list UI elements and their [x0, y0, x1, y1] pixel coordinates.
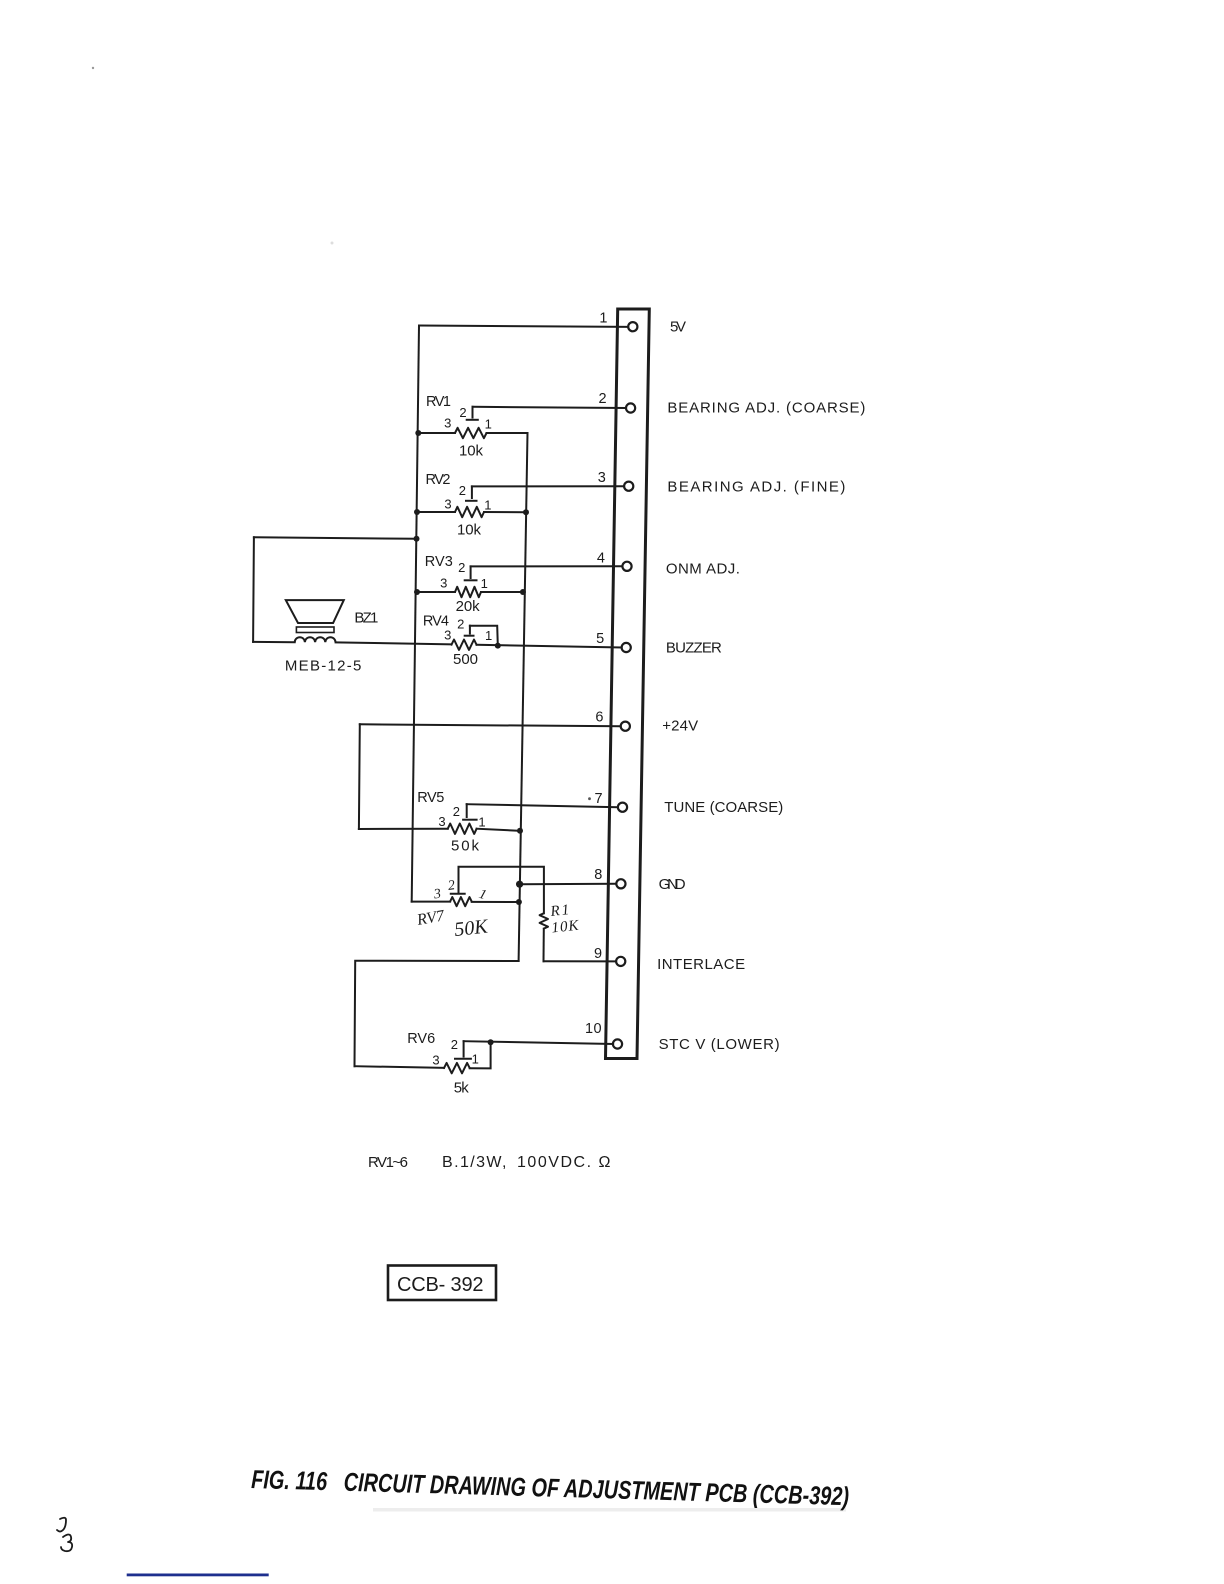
- RV7 pin 1 label: [477, 887, 488, 903]
- pin 7 number label: [595, 791, 604, 807]
- wire buzzer bottom left segment: [253, 641, 295, 643]
- RV2 wiper wire to pin 3: [472, 485, 624, 487]
- RV6 value 5k: [454, 1080, 471, 1097]
- svg-text:3: 3: [444, 628, 451, 643]
- RV3 pin 1 label: [481, 576, 488, 591]
- wire buzzer loop left vertical: [252, 537, 255, 642]
- svg-text:1: 1: [485, 417, 492, 432]
- svg-text:2: 2: [599, 391, 608, 407]
- potentiometer RV2 label: [426, 472, 452, 488]
- buzzer type MEB-12-5: [285, 658, 363, 675]
- svg-text:BZ1: BZ1: [354, 610, 380, 627]
- RV1 left lead: [418, 432, 455, 434]
- svg-text:5V: 5V: [670, 319, 688, 336]
- pin 2 terminal circle: [626, 403, 635, 412]
- RV7 pin 2 label: [447, 878, 456, 894]
- pin 6 terminal circle: [621, 722, 630, 731]
- svg-text:1: 1: [481, 576, 488, 591]
- svg-text:GND: GND: [659, 876, 688, 893]
- wire GND right bus vertical: [519, 433, 528, 961]
- RV7 left lead from 5V bus: [412, 901, 450, 903]
- R1 value 10K handwritten: [551, 918, 581, 937]
- svg-text:10k: 10k: [457, 522, 483, 539]
- R1 bottom lead: [543, 929, 545, 962]
- RV6 wiper wire to pin 10: [464, 1041, 613, 1044]
- svg-text:6: 6: [595, 710, 604, 726]
- svg-text:CCB- 392: CCB- 392: [397, 1274, 485, 1296]
- RV7 wiper bar: [451, 893, 465, 895]
- svg-text:10K: 10K: [551, 918, 581, 937]
- net label INTERLACE: [657, 956, 747, 973]
- scan speck top left: [92, 67, 94, 69]
- net label BUZZER: [666, 640, 724, 657]
- potentiometer RV6 label: [407, 1031, 436, 1047]
- RV2 pin 1 label: [484, 498, 491, 513]
- wire 5V left bus vertical: [412, 326, 419, 902]
- RV7 label handwritten: [415, 907, 447, 929]
- wire +24V to pin 6: [360, 724, 621, 726]
- junction RV2.3 on 5V bus: [414, 509, 420, 515]
- buzzer BZ1 element bar: [296, 627, 334, 633]
- caption scan smudge: [373, 1508, 846, 1512]
- wire 5V from bus to pin 1: [419, 326, 628, 327]
- svg-text:TUNE (COARSE): TUNE (COARSE): [664, 799, 785, 816]
- RV3 wiper: [465, 566, 477, 580]
- svg-text:+24V: +24V: [662, 718, 700, 735]
- RV2 pin 2 label: [459, 483, 466, 498]
- svg-text:9: 9: [594, 946, 603, 962]
- wire +24V to RV5.3: [359, 828, 448, 830]
- RV3 wiper wire to pin 4: [471, 565, 623, 567]
- svg-text:3: 3: [444, 416, 451, 431]
- svg-text:MEB-12-5: MEB-12-5: [285, 658, 363, 675]
- RV5 wiper wire to pin 7: [467, 804, 618, 807]
- buzzer BZ1 horn: [286, 600, 344, 623]
- wire GND bottom to RV6 loop: [355, 961, 519, 1066]
- wire buzzer to RV4: [336, 642, 452, 644]
- svg-text:BEARING ADJ. (COARSE): BEARING ADJ. (COARSE): [667, 400, 867, 417]
- handwritten check mark bottom: [61, 1535, 72, 1552]
- net label ONM ADJ.: [666, 561, 742, 578]
- RV4 value 500: [453, 651, 480, 668]
- RV5 resistor body: [448, 824, 477, 834]
- svg-text:2: 2: [458, 560, 465, 575]
- svg-text:2: 2: [459, 483, 466, 498]
- wire GND to pin 8: [520, 883, 617, 885]
- RV1 pin 2 label: [459, 405, 466, 420]
- pin 4 terminal circle: [622, 562, 631, 571]
- svg-text:4: 4: [597, 550, 606, 566]
- RV1 wiper wire to pin 2: [473, 407, 627, 408]
- svg-text:5: 5: [596, 631, 605, 647]
- svg-text:FIG. 116 CIRCUIT DRAWING OF: FIG. 116 CIRCUIT DRAWING OF ADJUSTMENT P…: [251, 1464, 850, 1511]
- svg-text:2: 2: [457, 617, 464, 632]
- potentiometer RV4 label: [423, 614, 450, 630]
- RV7 pin 3 label: [432, 887, 442, 903]
- RV7 resistor body: [450, 897, 472, 906]
- RV2 pin 3 label: [444, 497, 451, 512]
- RV1 right lead to right bus: [487, 432, 528, 434]
- net label GND: [659, 876, 688, 893]
- svg-text:BUZZER: BUZZER: [666, 640, 724, 657]
- pin 6 number label: [595, 710, 604, 726]
- figure caption: [251, 1464, 850, 1511]
- svg-text:3: 3: [444, 497, 451, 512]
- pin 8 number label: [594, 867, 603, 883]
- pin 5 terminal circle: [622, 643, 631, 652]
- potentiometer RV3 label: [425, 554, 454, 570]
- RV3 right lead: [481, 591, 523, 593]
- svg-text:7: 7: [595, 791, 604, 807]
- svg-text:100VDC. Ω: 100VDC. Ω: [517, 1154, 612, 1171]
- RV3 left lead: [417, 591, 455, 593]
- RV6 resistor body: [444, 1063, 470, 1073]
- pin 10 number label: [585, 1021, 602, 1037]
- svg-text:RV3: RV3: [425, 554, 454, 570]
- RV4 right lead and wire to pin 5: [477, 645, 622, 648]
- wire buzzer loop top: [254, 537, 417, 539]
- junction RV3.3 on 5V bus: [414, 589, 420, 595]
- RV4 wiper: [465, 626, 474, 636]
- RV3 resistor body: [455, 587, 481, 597]
- pin 8 terminal circle: [616, 879, 625, 888]
- junction RV5.1 on right bus: [517, 828, 523, 834]
- svg-text:3: 3: [432, 887, 442, 903]
- svg-text:2: 2: [459, 405, 466, 420]
- scan speck middle: [331, 242, 334, 245]
- RV6 right lead strap: [470, 1042, 491, 1068]
- RV4 wiper strap to pin1 side: [470, 626, 498, 646]
- CCB-392 title box: [388, 1266, 496, 1301]
- svg-text:5k: 5k: [454, 1080, 471, 1097]
- RV1 pin 1 label: [485, 417, 492, 432]
- svg-text:RV2: RV2: [426, 472, 452, 488]
- potentiometer RV5 label: [417, 790, 445, 806]
- RV1 wiper: [467, 407, 478, 420]
- svg-text:20k: 20k: [456, 598, 482, 615]
- junction RV3.1 on right bus: [520, 589, 526, 595]
- R1 label handwritten: [549, 902, 572, 920]
- RV5 pin 2 label: [453, 804, 460, 819]
- RV6 pin 2 label: [451, 1037, 458, 1052]
- RV2 right lead: [484, 511, 526, 513]
- buzzer BZ1 coil: [295, 637, 336, 642]
- RV2 resistor body: [455, 507, 484, 517]
- RV5 wiper: [463, 804, 477, 820]
- net label +24V: [662, 718, 700, 735]
- RV5 value 50k: [451, 838, 481, 855]
- svg-text:STC V (LOWER): STC V (LOWER): [659, 1036, 782, 1053]
- RV3 pin 2 label: [458, 560, 465, 575]
- net label 5V: [670, 319, 688, 336]
- junction RV2.1 on right bus: [523, 509, 529, 515]
- RV4 resistor body: [452, 640, 477, 650]
- handwritten check mark top: [57, 1518, 66, 1532]
- junction RV1.3 on 5V bus: [415, 430, 421, 436]
- pin 9 terminal circle: [616, 957, 625, 966]
- RV1 pin 3 label: [444, 416, 451, 431]
- RV7 right lead: [472, 901, 519, 903]
- net label BEARING ADJ. (COARSE): [667, 400, 867, 417]
- junction GND bus with pin 8 wire: [516, 881, 523, 888]
- pin 1 number label: [599, 311, 608, 327]
- RV4 pin 2 label: [457, 617, 464, 632]
- svg-text:INTERLACE: INTERLACE: [657, 956, 747, 973]
- svg-text:RV1: RV1: [426, 394, 452, 410]
- svg-text:50k: 50k: [451, 838, 481, 855]
- pin 2 number label: [599, 391, 608, 407]
- junction RV4 wiper on pin5 wire: [495, 643, 501, 649]
- svg-text:2: 2: [447, 878, 456, 894]
- RV2 wiper: [466, 486, 477, 500]
- wire RV6 loop to RV6.3: [355, 1066, 445, 1068]
- junction RV7.1 on right bus: [516, 899, 522, 905]
- net label BEARING ADJ. (FINE): [667, 479, 847, 496]
- wire +24V left vertical: [358, 724, 361, 829]
- svg-text:RV7: RV7: [415, 907, 447, 929]
- junction RV6.1 on pin 10 wire: [488, 1039, 494, 1045]
- RV6 wiper: [455, 1041, 471, 1059]
- svg-text:50K: 50K: [453, 915, 490, 941]
- RV3 pin 3 label: [440, 576, 447, 591]
- resistor R1 body: [540, 913, 548, 928]
- speck near pin 7 number: [588, 797, 591, 800]
- pin 3 number label: [598, 470, 607, 486]
- svg-text:2: 2: [451, 1037, 458, 1052]
- svg-text:3: 3: [432, 1053, 439, 1068]
- svg-text:BEARING ADJ. (FINE): BEARING ADJ. (FINE): [667, 479, 847, 496]
- svg-text:10k: 10k: [459, 443, 485, 460]
- RV4 pin 1 label: [485, 628, 492, 643]
- RV5 right lead: [477, 829, 520, 831]
- pin 9 number label: [594, 946, 603, 962]
- connector CCB-392 body: [606, 309, 650, 1059]
- svg-text:3: 3: [440, 576, 447, 591]
- svg-text:500: 500: [453, 651, 480, 668]
- RV1 value 10k: [459, 443, 485, 460]
- svg-text:1: 1: [472, 1052, 479, 1067]
- blue pen line bottom: [127, 1574, 269, 1577]
- RV6 pin 1 label: [472, 1052, 479, 1067]
- pin 7 terminal circle: [618, 803, 627, 812]
- RV5 pin 1 label: [478, 815, 485, 830]
- pin 3 terminal circle: [624, 482, 633, 491]
- svg-text:B.1/3W,: B.1/3W,: [442, 1154, 508, 1171]
- pin 1 terminal circle: [628, 322, 637, 331]
- svg-text:8: 8: [594, 867, 603, 883]
- RV2 value 10k: [457, 522, 483, 539]
- svg-text:ONM ADJ.: ONM ADJ.: [666, 561, 742, 578]
- potentiometer RV1 label: [426, 394, 452, 410]
- svg-text:RV1~6: RV1~6: [368, 1154, 409, 1171]
- svg-text:2: 2: [453, 804, 460, 819]
- svg-text:3: 3: [598, 470, 607, 486]
- pin 10 terminal circle: [613, 1039, 622, 1048]
- svg-text:3: 3: [438, 814, 445, 829]
- pin 4 number label: [597, 550, 606, 566]
- junction buzzer loop on 5V bus: [414, 536, 420, 542]
- RV7 wiper wire top: [459, 867, 544, 914]
- note RV1-6 rating: [368, 1154, 612, 1171]
- RV1 resistor body: [455, 428, 487, 438]
- svg-text:10: 10: [585, 1021, 602, 1037]
- pin 5 number label: [596, 631, 605, 647]
- RV5 pin 3 label: [438, 814, 445, 829]
- buzzer BZ1 label: [354, 610, 380, 627]
- svg-text:1: 1: [478, 815, 485, 830]
- net label TUNE (COARSE): [664, 799, 785, 816]
- svg-text:1: 1: [484, 498, 491, 513]
- svg-text:1: 1: [485, 628, 492, 643]
- net label STC V (LOWER): [659, 1036, 782, 1053]
- svg-text:1: 1: [599, 311, 608, 327]
- svg-text:RV6: RV6: [407, 1031, 436, 1047]
- RV3 value 20k: [456, 598, 482, 615]
- RV2 left lead: [417, 511, 455, 513]
- RV7 value 50K handwritten: [453, 915, 490, 941]
- wire R1 to pin 9: [544, 960, 617, 962]
- svg-text:RV5: RV5: [417, 790, 445, 806]
- RV4 pin 3 label: [444, 628, 451, 643]
- RV6 pin 3 label: [432, 1053, 439, 1068]
- svg-text:R1: R1: [549, 902, 572, 920]
- CCB-392 title text: [397, 1274, 485, 1296]
